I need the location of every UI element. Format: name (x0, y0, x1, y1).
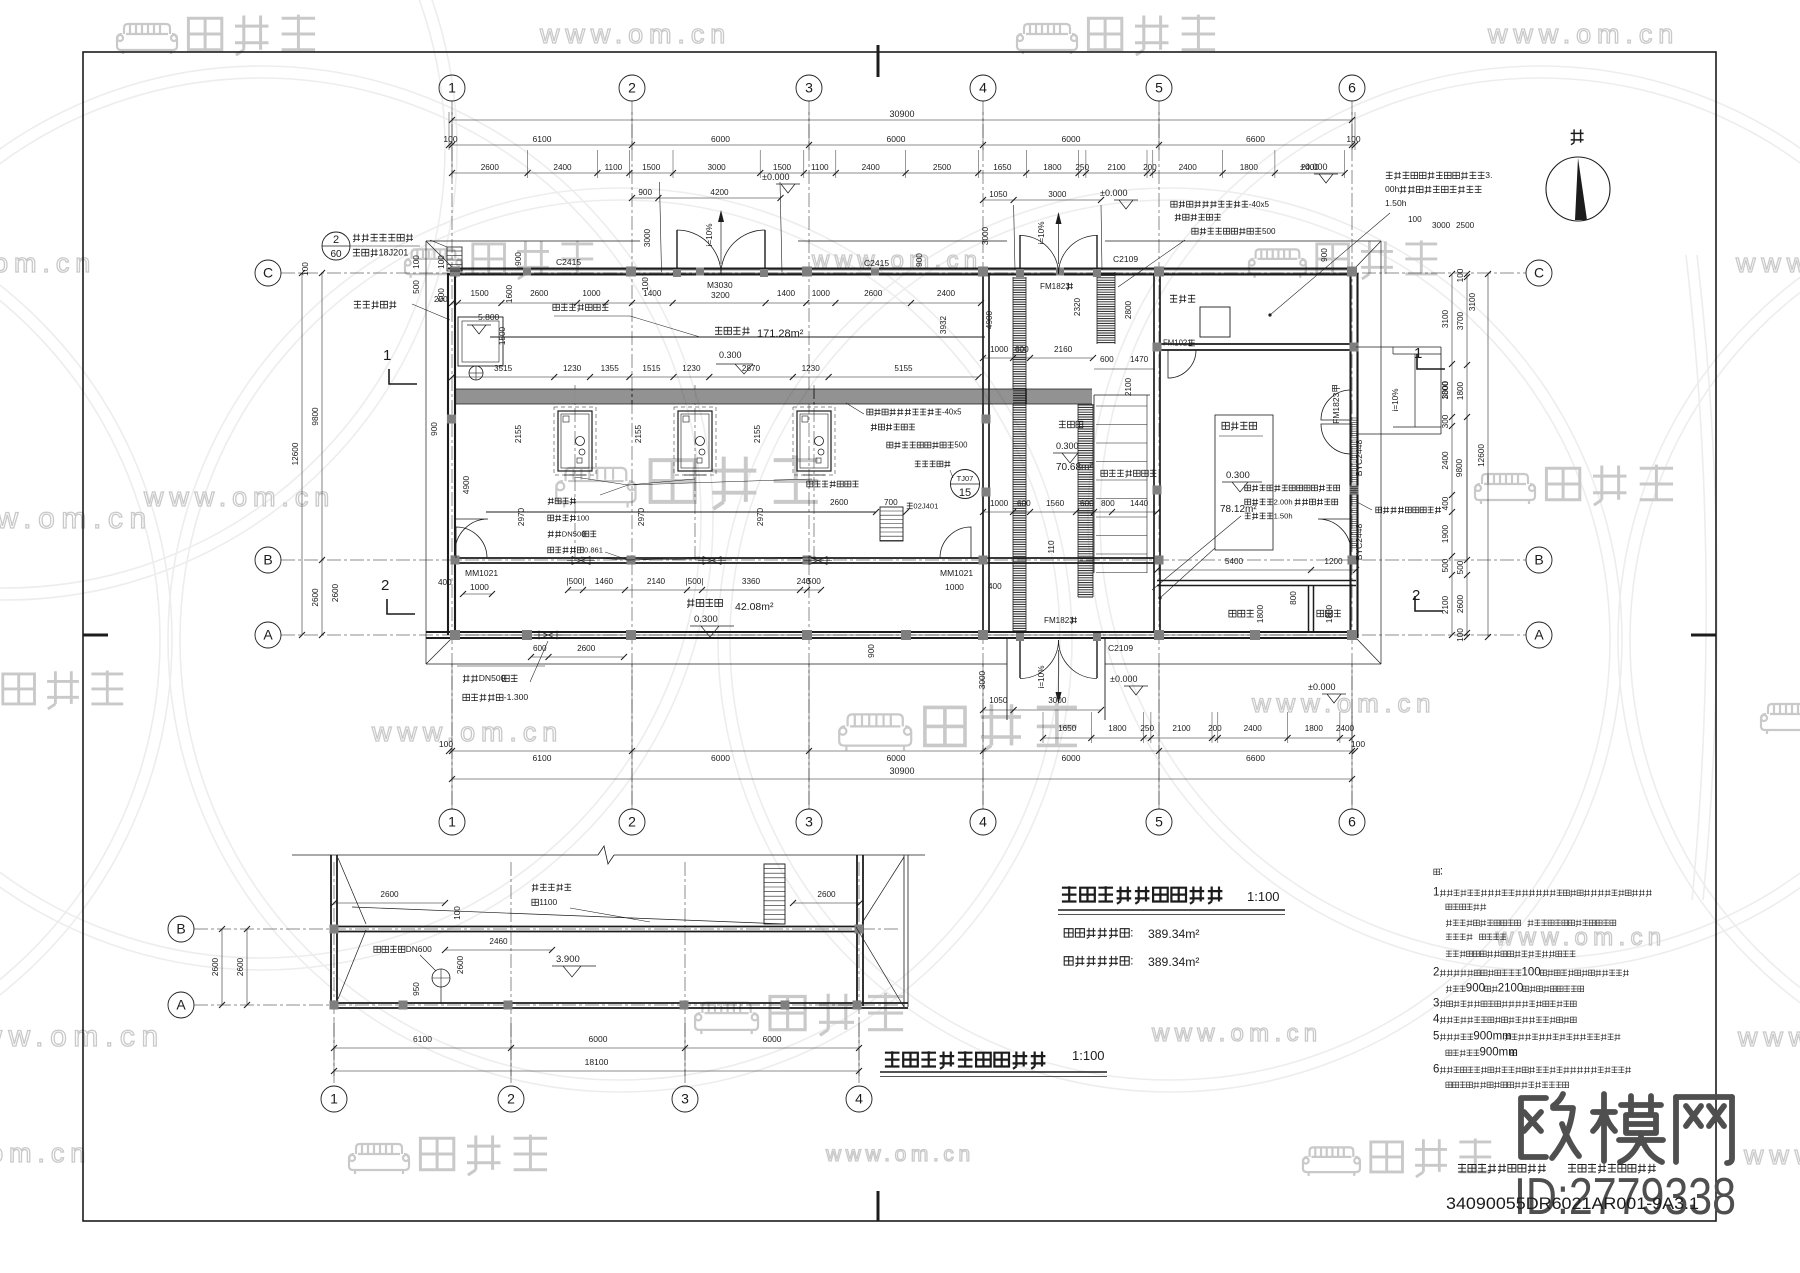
svg-text:3: 3 (1433, 997, 1439, 1009)
svg-text:2600: 2600 (530, 289, 549, 298)
svg-text:www.om.cn: www.om.cn (1743, 1140, 1800, 1170)
svg-text:2970: 2970 (756, 507, 765, 526)
svg-text:C2415: C2415 (864, 258, 889, 268)
svg-text:400: 400 (988, 582, 1002, 591)
svg-text:900: 900 (514, 252, 523, 266)
svg-text:2100: 2100 (1107, 163, 1126, 172)
svg-text:4: 4 (979, 80, 987, 96)
svg-text:300: 300 (1441, 414, 1450, 428)
mezzanine floor plan (292, 854, 598, 856)
svg-text:2100: 2100 (1172, 724, 1191, 733)
svg-text:2400: 2400 (1336, 724, 1355, 733)
svg-text:400: 400 (1441, 496, 1450, 510)
svg-text:100: 100 (1456, 268, 1465, 282)
svg-text:0.300: 0.300 (719, 350, 742, 360)
svg-text:200: 200 (434, 295, 448, 304)
svg-text:1800: 1800 (1325, 604, 1334, 623)
svg-text:2600: 2600 (817, 890, 836, 899)
svg-text:6000: 6000 (887, 753, 906, 763)
svg-text:1050: 1050 (989, 696, 1008, 705)
svg-text:171.28m²: 171.28m² (757, 328, 804, 340)
svg-text:2600: 2600 (311, 588, 320, 607)
svg-text:5.800: 5.800 (478, 312, 500, 322)
svg-text:1100: 1100 (605, 163, 623, 172)
svg-text:2460: 2460 (489, 937, 508, 946)
svg-text:200: 200 (1143, 163, 1157, 172)
svg-text:4: 4 (855, 1091, 863, 1107)
corridor wall B, valves and doors (572, 557, 590, 565)
svg-text:DN500: DN500 (562, 529, 586, 538)
canopy outline (426, 240, 640, 242)
axis grid lines and bubbles (451, 101, 453, 809)
svg-text:2400: 2400 (862, 163, 881, 172)
svg-text:1800: 1800 (1108, 724, 1127, 733)
watermark arcs (0, 66, 713, 970)
svg-text:900: 900 (430, 422, 439, 436)
svg-text:100: 100 (1408, 215, 1422, 224)
svg-text:18100: 18100 (585, 1057, 609, 1067)
site logo and ID (1521, 1094, 1732, 1163)
svg-text:0.300: 0.300 (1226, 470, 1250, 481)
svg-text:www.om.cn: www.om.cn (0, 502, 153, 535)
svg-text:2400: 2400 (937, 289, 956, 298)
svg-text:100: 100 (641, 277, 650, 291)
svg-text:i=10%: i=10% (1391, 389, 1400, 412)
svg-text:A: A (1534, 627, 1544, 643)
svg-text:2.00h: 2.00h (1274, 497, 1293, 506)
svg-text:4900: 4900 (462, 475, 471, 494)
svg-text:6: 6 (1348, 814, 1356, 830)
svg-text:4: 4 (1433, 1013, 1440, 1025)
svg-text:1000: 1000 (582, 289, 601, 298)
svg-text:www.om.cn: www.om.cn (0, 1138, 91, 1168)
svg-text:02J401: 02J401 (913, 501, 938, 510)
svg-text:2600: 2600 (331, 583, 340, 602)
electrical room and stair block (1059, 421, 1066, 428)
svg-text:6000: 6000 (887, 134, 906, 144)
svg-text:700: 700 (884, 498, 898, 507)
svg-text:1: 1 (383, 347, 391, 364)
svg-text:www.om.cn: www.om.cn (143, 482, 335, 512)
svg-text:12600: 12600 (291, 442, 300, 465)
svg-text:5: 5 (1155, 80, 1163, 96)
svg-text:3100: 3100 (1468, 292, 1477, 311)
top dimension chains (452, 119, 1352, 121)
svg-text:-40x5: -40x5 (942, 408, 962, 417)
svg-text:www.om.cn: www.om.cn (0, 248, 96, 278)
svg-text:900mm: 900mm (1480, 1046, 1518, 1058)
svg-text:15: 15 (959, 487, 971, 499)
svg-text:www.om.cn: www.om.cn (1737, 1022, 1800, 1052)
svg-text:800: 800 (1289, 591, 1298, 605)
svg-text:600: 600 (1015, 345, 1029, 354)
svg-text:800: 800 (1101, 499, 1115, 508)
svg-text:±0.000: ±0.000 (1308, 682, 1335, 692)
svg-text:1230: 1230 (563, 364, 582, 373)
svg-text:4: 4 (979, 814, 987, 830)
svg-text:1: 1 (330, 1091, 338, 1107)
svg-text:1100: 1100 (539, 897, 557, 907)
svg-text:3200: 3200 (711, 290, 730, 300)
svg-text:9800: 9800 (311, 407, 320, 426)
svg-text:1400: 1400 (777, 289, 796, 298)
svg-text:i=10%: i=10% (1037, 666, 1046, 689)
svg-text:6100: 6100 (533, 753, 552, 763)
svg-text:500: 500 (1456, 560, 1465, 574)
bottom dimension chains (1043, 737, 1352, 739)
svg-text:2600: 2600 (456, 955, 465, 974)
svg-text:2600: 2600 (236, 957, 245, 976)
svg-text:600: 600 (1017, 499, 1031, 508)
entrance doors and porches (660, 182, 662, 272)
roof ladder, detail bubble 2/60, steel platform (447, 247, 462, 271)
general notes (1434, 869, 1440, 875)
svg-text:3000: 3000 (1048, 190, 1067, 199)
svg-text:2100: 2100 (1124, 377, 1133, 396)
svg-text:34090055DR6021AR001-9A3.1: 34090055DR6021AR001-9A3.1 (1446, 1195, 1699, 1213)
svg-text:1800: 1800 (1305, 724, 1324, 733)
svg-text:6: 6 (1348, 80, 1356, 96)
svg-text:42.08m²: 42.08m² (735, 601, 774, 613)
svg-text:3515: 3515 (494, 364, 513, 373)
svg-text:1100: 1100 (811, 163, 829, 172)
svg-text:900: 900 (1466, 982, 1485, 994)
svg-text:100: 100 (301, 262, 310, 276)
svg-text:950: 950 (412, 982, 421, 996)
svg-text:A: A (176, 997, 186, 1013)
svg-text:2100: 2100 (1441, 595, 1450, 614)
svg-text:±0.000: ±0.000 (1110, 674, 1137, 684)
svg-text:900: 900 (638, 188, 652, 197)
building walls (448, 267, 1356, 269)
svg-text:200: 200 (1208, 724, 1222, 733)
svg-text:BYC2448: BYC2448 (1354, 524, 1364, 561)
svg-text:2320: 2320 (1073, 297, 1082, 316)
svg-text:1650: 1650 (993, 163, 1012, 172)
svg-text:3000: 3000 (981, 226, 990, 245)
svg-text:500: 500 (1441, 558, 1450, 572)
svg-text:3000: 3000 (707, 163, 726, 172)
svg-text:2600: 2600 (864, 289, 883, 298)
side dimension chains (1451, 274, 1453, 635)
blower hall labels (715, 327, 722, 335)
svg-text:1500: 1500 (470, 289, 489, 298)
svg-text:00h: 00h (1385, 184, 1400, 194)
svg-text:1500: 1500 (773, 163, 792, 172)
svg-text:1515: 1515 (642, 364, 661, 373)
svg-text:900: 900 (867, 644, 876, 658)
svg-text:1900: 1900 (1441, 524, 1450, 543)
svg-text:6100: 6100 (533, 134, 552, 144)
svg-text:1000: 1000 (945, 582, 964, 592)
svg-text:6000: 6000 (589, 1034, 608, 1044)
svg-text:78.12m²: 78.12m² (1220, 504, 1257, 515)
svg-text:6000: 6000 (1062, 753, 1081, 763)
svg-text:3000: 3000 (978, 670, 987, 689)
svg-text:6600: 6600 (1246, 134, 1265, 144)
svg-text:6600: 6600 (1246, 753, 1265, 763)
svg-text:1800: 1800 (1256, 604, 1265, 623)
svg-text:C2109: C2109 (1113, 254, 1138, 264)
svg-text:100: 100 (439, 739, 453, 749)
svg-text:100: 100 (1346, 134, 1360, 144)
svg-text:6000: 6000 (763, 1034, 782, 1044)
svg-text:389.34m²: 389.34m² (1148, 955, 1200, 969)
svg-text:110: 110 (1047, 540, 1056, 553)
svg-text:3932: 3932 (939, 315, 948, 334)
svg-text:A: A (263, 627, 273, 643)
svg-text:3100: 3100 (1441, 309, 1450, 328)
svg-text:2600: 2600 (211, 957, 220, 976)
svg-text:1: 1 (1433, 886, 1439, 898)
svg-text:600: 600 (1100, 355, 1114, 364)
svg-text:±0.000: ±0.000 (1300, 162, 1327, 172)
svg-text:www.om.cn: www.om.cn (1495, 924, 1666, 951)
svg-text:2400: 2400 (553, 163, 572, 172)
svg-text:30900: 30900 (889, 109, 914, 119)
svg-text:250: 250 (1140, 724, 1154, 733)
svg-text:1355: 1355 (601, 364, 620, 373)
svg-text:2140: 2140 (647, 577, 666, 586)
svg-text:2500: 2500 (933, 163, 952, 172)
svg-text:100: 100 (577, 513, 590, 522)
svg-text:1500: 1500 (642, 163, 661, 172)
svg-text:1800: 1800 (1043, 163, 1062, 172)
svg-text:250: 250 (1075, 163, 1089, 172)
svg-text:FM1021: FM1021 (1163, 339, 1192, 348)
svg-text:3.: 3. (1485, 170, 1492, 180)
svg-text:1.50h: 1.50h (1274, 511, 1293, 520)
svg-text:www.om.cn: www.om.cn (1251, 688, 1436, 718)
svg-text:100: 100 (1351, 739, 1365, 749)
svg-text:-1.300: -1.300 (504, 692, 529, 702)
svg-text:i=10%: i=10% (705, 224, 714, 247)
svg-text:3000: 3000 (643, 228, 652, 247)
cable trench hatch (455, 388, 1092, 390)
svg-text:1:100: 1:100 (1247, 889, 1280, 904)
svg-text:6000: 6000 (711, 753, 730, 763)
svg-text:5155: 5155 (894, 364, 913, 373)
svg-text:1000: 1000 (812, 289, 831, 298)
svg-text:-40x5: -40x5 (1249, 200, 1270, 209)
svg-text:2: 2 (507, 1091, 515, 1107)
svg-text:B: B (1534, 552, 1543, 568)
svg-text:2: 2 (333, 234, 339, 246)
svg-text:2400: 2400 (1441, 451, 1450, 470)
svg-text:2600: 2600 (380, 890, 399, 899)
svg-text::: : (1130, 955, 1133, 968)
svg-text:2600: 2600 (1456, 594, 1465, 613)
svg-text:70.68m²: 70.68m² (1056, 462, 1093, 473)
svg-text:3: 3 (805, 80, 813, 96)
svg-text:100: 100 (437, 255, 446, 269)
svg-text:2: 2 (381, 577, 389, 594)
svg-text:1000: 1000 (990, 345, 1009, 354)
svg-text:www.om.cn: www.om.cn (371, 717, 563, 747)
svg-text:1800: 1800 (1441, 381, 1450, 400)
svg-text:60: 60 (330, 249, 342, 260)
svg-text:1560: 1560 (1046, 499, 1065, 508)
svg-text:0.300: 0.300 (694, 614, 718, 625)
north arrow (1546, 157, 1610, 221)
svg-text:www.om.cn: www.om.cn (1151, 1020, 1322, 1047)
svg-text:6: 6 (1433, 1063, 1439, 1075)
svg-text:2400: 2400 (1179, 163, 1198, 172)
svg-text:2: 2 (628, 814, 636, 830)
svg-text:2: 2 (1412, 587, 1420, 604)
svg-text:1470: 1470 (1130, 355, 1149, 364)
svg-text:100: 100 (412, 255, 421, 269)
svg-text:30900: 30900 (889, 766, 914, 776)
svg-text:2100: 2100 (1498, 982, 1524, 994)
svg-text:5: 5 (1155, 814, 1163, 830)
svg-text:MM1021: MM1021 (465, 568, 498, 578)
svg-text:1: 1 (448, 814, 456, 830)
svg-text:389.34m²: 389.34m² (1148, 927, 1200, 941)
svg-text:4200: 4200 (710, 188, 729, 197)
svg-text:1230: 1230 (802, 364, 821, 373)
svg-text:2970: 2970 (517, 507, 526, 526)
svg-text:FM1823: FM1823 (1044, 616, 1074, 625)
svg-text:C: C (1534, 265, 1544, 281)
svg-text:FM1823: FM1823 (1040, 282, 1070, 291)
svg-text:www.om.cn: www.om.cn (539, 19, 731, 49)
svg-text:2600: 2600 (481, 163, 500, 172)
svg-text:1440: 1440 (1130, 499, 1149, 508)
svg-text::: : (1130, 927, 1133, 940)
svg-text:C: C (263, 265, 273, 281)
svg-text:2600: 2600 (577, 644, 596, 653)
svg-text:2: 2 (628, 80, 636, 96)
svg-text:1230: 1230 (682, 364, 701, 373)
svg-text:100: 100 (1522, 966, 1541, 978)
svg-text:www.om.cn: www.om.cn (1487, 19, 1679, 49)
svg-text:C2109: C2109 (1108, 643, 1133, 653)
svg-text:TJ07: TJ07 (957, 474, 974, 483)
svg-text:1500: 1500 (498, 326, 507, 345)
svg-text:2155: 2155 (634, 424, 643, 443)
plan titles and areas (1062, 886, 1077, 901)
svg-text:900: 900 (1320, 248, 1329, 262)
svg-text:|500|: |500| (686, 577, 704, 586)
svg-text:500: 500 (412, 280, 421, 294)
svg-text:5: 5 (1433, 1030, 1439, 1042)
svg-text:1800: 1800 (1240, 163, 1259, 172)
svg-text:MM1021: MM1021 (940, 568, 973, 578)
svg-text:2155: 2155 (753, 424, 762, 443)
svg-text:www.om.cn: www.om.cn (825, 1143, 975, 1166)
svg-text:900: 900 (915, 253, 924, 267)
svg-text:2160: 2160 (1054, 345, 1073, 354)
svg-text:i=10%: i=10% (1037, 222, 1046, 245)
svg-text:400: 400 (438, 578, 452, 587)
svg-text:12600: 12600 (1477, 444, 1486, 467)
svg-text:3: 3 (805, 814, 813, 830)
svg-text:4900: 4900 (985, 310, 994, 329)
svg-text:FM1823甲: FM1823甲 (1331, 384, 1341, 424)
svg-text:100: 100 (443, 134, 457, 144)
svg-text:2155: 2155 (514, 424, 523, 443)
svg-text:6000: 6000 (1062, 134, 1081, 144)
svg-text:2500: 2500 (1456, 221, 1475, 230)
svg-text:2600: 2600 (830, 498, 849, 507)
svg-text:1460: 1460 (595, 577, 614, 586)
svg-text:1.50h: 1.50h (1385, 198, 1407, 208)
svg-text:100: 100 (1456, 628, 1465, 642)
svg-text:BYC2448: BYC2448 (1354, 440, 1364, 477)
svg-text::: : (1440, 865, 1443, 877)
svg-text:5400: 5400 (1225, 557, 1244, 566)
svg-text:2870: 2870 (742, 364, 761, 373)
svg-text:1:100: 1:100 (1072, 1048, 1105, 1063)
svg-text:1800: 1800 (1456, 381, 1465, 400)
svg-text:2: 2 (1433, 966, 1439, 978)
svg-text:B: B (263, 552, 272, 568)
svg-text:18J201: 18J201 (379, 248, 409, 258)
watermark logos and urls (117, 24, 177, 54)
svg-text:600: 600 (1080, 499, 1094, 508)
svg-text:DN500: DN500 (479, 673, 506, 683)
svg-text:500: 500 (954, 441, 968, 450)
svg-text:DN600: DN600 (406, 944, 432, 954)
svg-text:2400: 2400 (1244, 724, 1263, 733)
svg-text:1: 1 (448, 80, 456, 96)
svg-text:www.om.cn: www.om.cn (1735, 248, 1800, 278)
svg-text:0.300: 0.300 (1056, 441, 1079, 451)
svg-text:500: 500 (1262, 227, 1276, 236)
svg-text:1200: 1200 (1324, 557, 1343, 566)
svg-text:9800: 9800 (1455, 458, 1464, 477)
blower units with foundations (574, 385, 576, 560)
svg-text:1650: 1650 (1058, 724, 1077, 733)
svg-text:1600: 1600 (505, 284, 514, 303)
svg-text:M3030: M3030 (707, 280, 733, 290)
svg-text:0.861: 0.861 (584, 545, 603, 554)
oil storage and diesel rooms, shafts (1170, 295, 1177, 303)
svg-text:3.900: 3.900 (556, 954, 580, 965)
svg-text:C2415: C2415 (556, 257, 581, 267)
svg-text:100: 100 (453, 906, 462, 920)
svg-text:3: 3 (681, 1091, 689, 1107)
svg-text:500: 500 (807, 577, 821, 586)
svg-text:3360: 3360 (742, 577, 761, 586)
svg-text:3000: 3000 (1432, 221, 1451, 230)
svg-text:6000: 6000 (711, 134, 730, 144)
svg-text:B: B (176, 921, 185, 937)
svg-text:6100: 6100 (413, 1034, 432, 1044)
svg-text:1000: 1000 (470, 582, 489, 592)
svg-text:±0.000: ±0.000 (762, 172, 789, 182)
svg-text:2800: 2800 (1124, 300, 1133, 319)
svg-text:|500|: |500| (567, 577, 585, 586)
svg-text:3700: 3700 (1456, 311, 1465, 330)
svg-text:2970: 2970 (637, 507, 646, 526)
svg-text:1000: 1000 (990, 499, 1009, 508)
svg-text:1050: 1050 (989, 190, 1008, 199)
svg-text:±0.000: ±0.000 (1100, 188, 1127, 198)
svg-text:3000: 3000 (1048, 696, 1067, 705)
